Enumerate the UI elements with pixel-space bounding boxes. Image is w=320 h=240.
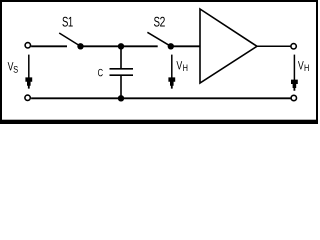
wire op-amp output bbox=[257, 45, 291, 47]
capacitor C bbox=[110, 46, 134, 98]
label VH output bbox=[298, 61, 309, 71]
label C bbox=[98, 69, 103, 76]
arrow VH output bbox=[291, 55, 298, 91]
junction dot S1 output bbox=[77, 43, 83, 49]
junction dot capacitor top bbox=[118, 43, 124, 49]
terminal bottom-right bbox=[291, 95, 296, 100]
wire bottom rail bbox=[31, 97, 290, 99]
wire input terminal to S1 fixed contact bbox=[31, 45, 67, 47]
junction dot S2 output node VH bbox=[168, 43, 174, 49]
label S2 bbox=[154, 17, 165, 27]
junction dot capacitor bottom bbox=[118, 95, 124, 101]
label VS bbox=[8, 62, 18, 73]
switch S2 blade bbox=[147, 32, 170, 46]
label VH hold node bbox=[176, 61, 187, 71]
switch S1 blade bbox=[59, 33, 80, 46]
wire S2 to op-amp input bbox=[171, 45, 200, 47]
wire top rail S1 to S2 fixed contact bbox=[81, 45, 158, 47]
op-amp U1 buffer triangle bbox=[200, 9, 257, 83]
arrow VH hold node bbox=[168, 55, 175, 89]
terminal input top-left bbox=[25, 43, 30, 48]
label S1 bbox=[62, 17, 72, 27]
arrow VS input voltage bbox=[25, 55, 32, 89]
terminal bottom-left bbox=[25, 95, 30, 100]
terminal output top-right bbox=[291, 44, 296, 49]
